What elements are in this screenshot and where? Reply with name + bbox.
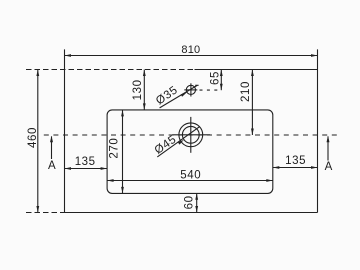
drain hole crosshair horizontal [172, 134, 210, 136]
arrow leader O35 [181, 92, 187, 97]
leader line O35 [160, 85, 198, 108]
svg-text:130: 130 [132, 79, 144, 100]
svg-text:135: 135 [285, 155, 306, 167]
faucet hole crosshair horizontal [184, 89, 197, 91]
svg-text:210: 210 [240, 81, 252, 102]
arrow 810 left [65, 54, 72, 57]
leader tail O35 [195, 84, 198, 86]
arrow 460 top [36, 70, 39, 77]
countertop left edge [64, 49, 66, 212]
svg-text:810: 810 [181, 44, 200, 56]
svg-text:65: 65 [209, 71, 221, 85]
arrow 135 left inner [101, 167, 108, 170]
svg-text:A: A [48, 160, 56, 172]
dimension 65 line [220, 70, 222, 91]
drain hole crosshair vertical [190, 117, 192, 153]
arrow section A right [327, 136, 330, 143]
arrow 460 bottom [36, 206, 39, 213]
arrow 210 bottom [251, 129, 254, 136]
arrow 135 left outer [65, 167, 72, 170]
arrow 65 bottom [220, 84, 223, 91]
countertop top edge solid part [195, 69, 318, 71]
arrow leader O45 [178, 140, 184, 145]
countertop top edge dashed part [26, 69, 195, 71]
arrow 810 right [311, 54, 318, 57]
dimension 130 line [143, 70, 145, 110]
section marker A left line [51, 136, 53, 159]
leader line O45 [157, 126, 200, 156]
arrow 65 top [220, 70, 223, 77]
countertop bottom edge [65, 212, 318, 214]
drain hole inner circle [182, 126, 199, 143]
svg-text:540: 540 [180, 170, 201, 182]
countertop bottom edge dashed extension [26, 212, 65, 214]
basin cutout rounded rectangle [107, 110, 273, 193]
dimension 60 line [196, 193, 198, 212]
svg-text:270: 270 [108, 138, 120, 159]
arrow 135 right inner [273, 166, 280, 169]
arrow 270 bottom [121, 187, 124, 194]
svg-text:A: A [325, 161, 333, 173]
arrow 60 top [195, 193, 198, 200]
dimension 810 line [65, 55, 318, 57]
faucet hole circle O35 [186, 85, 195, 94]
faucet hole centerline dashes to 65 dim [200, 89, 220, 91]
dimension 210 line [251, 70, 253, 136]
dimension 460 line [37, 70, 39, 213]
svg-text:135: 135 [75, 156, 96, 168]
arrow 270 top [121, 110, 124, 117]
dimension 270 line [122, 110, 124, 193]
drain hole outer circle O45 [179, 123, 203, 147]
svg-text:460: 460 [27, 127, 39, 148]
svg-text:60: 60 [184, 195, 196, 209]
arrow 210 top [251, 70, 254, 77]
arrow 60 bottom [195, 206, 198, 213]
arrow section A left [50, 136, 53, 143]
arrow 540 right [266, 179, 273, 182]
dimension 135 right line [273, 167, 318, 169]
dimension 135 left line [65, 168, 108, 170]
arrow 130 top [143, 70, 146, 77]
countertop right edge [317, 49, 319, 212]
arrow 135 right outer [311, 166, 318, 169]
faucet hole crosshair vertical [190, 83, 192, 96]
dimension 540 line [107, 180, 273, 182]
arrow 130 bottom [143, 103, 146, 110]
section marker A right line [327, 136, 329, 160]
section line A-A dashed centerline [44, 134, 337, 136]
arrow 540 left [107, 179, 114, 182]
